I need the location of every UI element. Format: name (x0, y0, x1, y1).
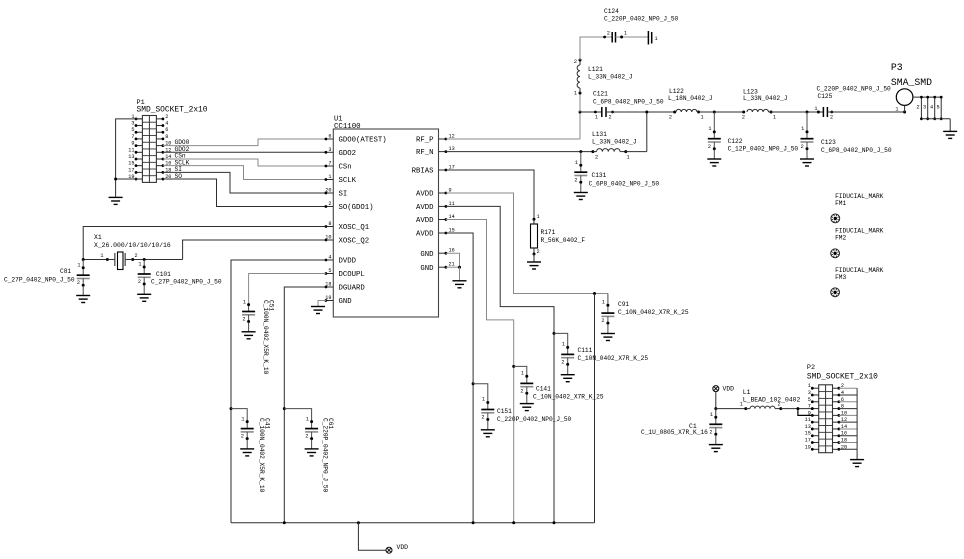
wire C151 branch (473, 384, 488, 403)
L121 labels (588, 66, 633, 81)
power VDD bottom (386, 547, 392, 553)
capacitor C51 (242, 303, 255, 323)
C121 labels (593, 91, 664, 106)
svg-text:1: 1 (708, 126, 711, 132)
svg-text:FIDUCIAL_MARK: FIDUCIAL_MARK (835, 267, 884, 274)
svg-text:L_BEAD_102_0402: L_BEAD_102_0402 (743, 397, 801, 404)
svg-text:5: 5 (131, 127, 134, 133)
svg-text:2: 2 (708, 144, 711, 150)
svg-text:P3: P3 (891, 62, 903, 73)
C131 pin numbers (574, 160, 578, 184)
wire AVDD14 (446, 220, 515, 523)
svg-text:1: 1 (100, 253, 103, 259)
svg-text:AVDD: AVDD (416, 204, 434, 212)
capacitor C91 (601, 294, 614, 325)
svg-text:9: 9 (131, 141, 134, 147)
capacitor C111 (561, 346, 574, 366)
svg-text:XOSC_Q2: XOSC_Q2 (339, 238, 370, 246)
wire RF_P (446, 138, 580, 140)
svg-text:L121: L121 (588, 66, 603, 73)
svg-text:C_10N_0402_X7R_K_25: C_10N_0402_X7R_K_25 (578, 355, 649, 362)
svg-text:L_33N_0402_J: L_33N_0402_J (592, 139, 637, 146)
fiducial FM3 (831, 288, 840, 297)
FM3 labels (835, 267, 884, 281)
svg-text:C121: C121 (593, 91, 608, 98)
capacitor stub antenna pad (648, 31, 657, 45)
svg-text:7: 7 (328, 161, 331, 167)
svg-text:2: 2 (607, 31, 610, 37)
wire C41 branch (230, 407, 248, 422)
svg-text:X_26.000/10/10/10/16: X_26.000/10/10/10/16 (94, 242, 171, 249)
wire RF node A (580, 111, 602, 113)
ground C41 (240, 440, 254, 456)
svg-text:2: 2 (328, 201, 331, 207)
ground R171 (527, 254, 541, 269)
wire AVDD bus drop (594, 294, 596, 523)
svg-text:2: 2 (574, 178, 577, 184)
svg-text:2: 2 (830, 115, 833, 121)
svg-text:VDD: VDD (723, 386, 735, 393)
svg-text:C91: C91 (618, 301, 629, 308)
svg-text:2: 2 (917, 105, 920, 111)
C124 labels (604, 8, 679, 23)
svg-text:SI: SI (339, 191, 348, 199)
C61 pin numbers (305, 417, 309, 440)
svg-text:1: 1 (710, 412, 713, 418)
X1 labels (94, 234, 171, 249)
P2 pin stubs (811, 387, 840, 451)
svg-text:L122: L122 (669, 88, 684, 95)
P2 pin numbers (805, 383, 847, 450)
L1 pin numbers (740, 402, 781, 408)
svg-text:11: 11 (805, 417, 811, 423)
svg-text:L_33N_0402_J: L_33N_0402_J (743, 95, 788, 102)
svg-text:1: 1 (574, 91, 577, 97)
inductor L122 (676, 109, 700, 113)
svg-text:GDO0(ATEST): GDO0(ATEST) (339, 137, 387, 145)
svg-text:1: 1 (328, 174, 331, 180)
svg-text:C_6P8_0402_NP0_J_50: C_6P8_0402_NP0_J_50 (821, 147, 892, 154)
svg-text:1: 1 (655, 36, 658, 42)
svg-text:L_33N_0402_J: L_33N_0402_J (588, 74, 633, 81)
FM2 labels (835, 228, 884, 242)
wire U1 GND pin (318, 301, 326, 307)
ground P1 (109, 197, 123, 204)
svg-text:15: 15 (128, 161, 134, 167)
svg-text:C_6P8_0402_NP0_J_50: C_6P8_0402_NP0_J_50 (593, 99, 664, 106)
crystal X1 (107, 252, 132, 270)
svg-text:2: 2 (595, 155, 598, 161)
wire C141 branch (514, 366, 527, 376)
wire crystal net (82, 258, 183, 261)
svg-text:7: 7 (131, 134, 134, 140)
svg-text:1: 1 (243, 300, 246, 306)
svg-text:1: 1 (701, 115, 704, 121)
svg-text:SMD_SOCKET_2x10: SMD_SOCKET_2x10 (137, 106, 208, 115)
svg-text:R_56K_0402_F: R_56K_0402_F (541, 237, 586, 244)
svg-text:2: 2 (481, 415, 484, 421)
wire VDD to L1 (716, 407, 748, 410)
capacitor C124 (603, 32, 648, 43)
wire P3 shield pins (913, 96, 950, 132)
svg-text:2: 2 (77, 280, 80, 286)
svg-text:C_27P_0402_NP0_J_50: C_27P_0402_NP0_J_50 (151, 279, 222, 286)
L122 labels (668, 88, 713, 102)
svg-text:2: 2 (561, 360, 564, 366)
svg-text:SO: SO (175, 173, 183, 180)
net label SI (175, 166, 183, 173)
svg-text:2: 2 (520, 389, 523, 395)
ground C61 (305, 440, 319, 456)
svg-text:C131: C131 (592, 172, 607, 179)
wire C61 branch (283, 407, 312, 422)
svg-text:1: 1 (521, 371, 524, 377)
svg-text:1: 1 (595, 115, 598, 121)
ground C51 (242, 323, 256, 339)
svg-text:1: 1 (537, 214, 540, 220)
C123 pin numbers (801, 126, 805, 150)
connector P1 body (142, 116, 156, 183)
wire P2 ground bus (839, 388, 857, 459)
ground C122 (707, 150, 721, 166)
C41 pin numbers (241, 417, 245, 440)
svg-text:17: 17 (805, 438, 811, 444)
wire AVDD9 (446, 193, 608, 295)
IC U1 CC1100 body (333, 129, 438, 317)
net label GDO0 (175, 139, 190, 146)
svg-text:13: 13 (805, 424, 811, 430)
svg-text:C123: C123 (821, 139, 836, 146)
wire DVDD (231, 260, 326, 523)
svg-text:17: 17 (128, 167, 134, 173)
svg-text:2: 2 (742, 115, 745, 121)
wire SI (163, 172, 326, 193)
svg-text:DVDD: DVDD (339, 258, 357, 266)
svg-text:C_12P_0402_NP0_J_50: C_12P_0402_NP0_J_50 (728, 146, 799, 153)
svg-text:1: 1 (627, 155, 630, 161)
svg-text:FIDUCIAL_MARK: FIDUCIAL_MARK (835, 193, 884, 200)
svg-text:C151: C151 (497, 408, 512, 415)
U1 title (334, 116, 361, 132)
wire XOSC_Q1 (83, 227, 326, 260)
C131 labels (589, 172, 660, 188)
inductor L1 (746, 406, 783, 410)
L122 pin numbers (669, 115, 704, 121)
svg-text:AVDD: AVDD (416, 231, 434, 239)
svg-text:C141: C141 (536, 386, 551, 393)
svg-text:6: 6 (328, 134, 331, 140)
svg-text:20: 20 (325, 188, 331, 194)
ground C141 (520, 394, 534, 410)
inductor L123 (747, 109, 773, 113)
L123 labels (743, 88, 788, 102)
svg-text:CC1100: CC1100 (334, 123, 361, 131)
svg-text:13: 13 (128, 154, 134, 160)
C125 labels (817, 85, 892, 100)
U1 right pin stubs (439, 138, 448, 269)
svg-text:2: 2 (165, 114, 168, 120)
wire GDO0 (163, 139, 326, 146)
wire SCLK (163, 166, 326, 180)
wire L123 to C125 (771, 111, 823, 114)
svg-text:19: 19 (805, 444, 811, 450)
svg-text:1: 1 (801, 126, 804, 132)
net label GDO2 (175, 146, 190, 153)
capacitor C101 (138, 260, 151, 286)
svg-text:L_18N_0402_J: L_18N_0402_J (668, 95, 713, 102)
C151 pin numbers (481, 397, 485, 421)
svg-text:R171: R171 (541, 229, 556, 236)
svg-text:3: 3 (131, 121, 134, 127)
VDD P2 label (723, 386, 735, 393)
wire CSn (163, 159, 326, 166)
svg-text:1: 1 (482, 397, 485, 403)
U1 left pin stubs (325, 138, 334, 302)
L1 labels (743, 389, 801, 404)
svg-text:2: 2 (242, 317, 245, 323)
wire RF_N (446, 150, 595, 153)
svg-text:C124: C124 (604, 8, 619, 15)
svg-text:SO(GDO1): SO(GDO1) (339, 204, 374, 212)
wire VDD tap (358, 523, 386, 550)
svg-text:5: 5 (328, 268, 331, 274)
capacitor C123 (801, 112, 814, 150)
L123 pin numbers (742, 115, 776, 121)
X1 pin numbers (100, 253, 137, 259)
ground C123 (800, 150, 814, 166)
svg-text:VDD: VDD (397, 544, 409, 551)
C122 pin numbers (708, 126, 712, 150)
ground C151 (481, 421, 495, 437)
svg-text:C101: C101 (156, 271, 171, 278)
svg-text:4: 4 (930, 105, 933, 111)
inductor L131 (593, 149, 627, 153)
ground C101 (137, 285, 151, 301)
svg-text:5: 5 (937, 105, 940, 111)
U1 left pin numbers (325, 134, 331, 302)
capacitor C61 (305, 420, 318, 440)
svg-text:8: 8 (328, 221, 331, 227)
svg-text:GND: GND (420, 265, 434, 273)
svg-text:2: 2 (609, 115, 612, 121)
C123 labels (821, 139, 892, 154)
wire L131 to node (626, 112, 647, 152)
svg-text:SCLK: SCLK (339, 177, 357, 185)
resistor R171 (531, 219, 538, 255)
svg-text:DCOUPL: DCOUPL (339, 271, 365, 279)
P1 pin numbers (128, 114, 171, 180)
svg-text:2: 2 (241, 434, 244, 440)
svg-text:X1: X1 (94, 234, 102, 241)
fiducial FM1 (831, 214, 840, 223)
wire L121 top (580, 37, 612, 60)
C124 pin numbers (607, 31, 627, 37)
U1 right pin names (412, 137, 435, 273)
svg-text:FM1: FM1 (835, 200, 846, 207)
svg-text:3: 3 (808, 390, 811, 396)
svg-text:C_1U_0805_X7R_K_16: C_1U_0805_X7R_K_16 (641, 429, 708, 436)
svg-text:RBIAS: RBIAS (412, 168, 435, 176)
svg-text:2: 2 (305, 434, 308, 440)
svg-text:1: 1 (138, 262, 141, 268)
svg-text:1: 1 (562, 342, 565, 348)
net label CSn (175, 153, 186, 160)
P1 title (137, 99, 208, 115)
svg-text:C_220P_0402_NP0_J_50: C_220P_0402_NP0_J_50 (604, 16, 679, 23)
svg-text:C125: C125 (818, 93, 833, 100)
svg-text:C81: C81 (60, 268, 71, 275)
C141 pin numbers (520, 371, 524, 395)
capacitor C151 (481, 401, 494, 421)
C91 pin numbers (601, 300, 605, 325)
P3 shield pin numbers (917, 105, 940, 111)
P3 pin1 number (895, 107, 898, 113)
svg-text:1: 1 (77, 263, 80, 269)
C91 labels (618, 301, 689, 316)
svg-text:C_27P_0402_NP0_J_50: C_27P_0402_NP0_J_50 (4, 277, 75, 284)
ground C1 (709, 435, 723, 451)
svg-text:5: 5 (808, 397, 811, 403)
C101 labels (151, 271, 222, 286)
ground U1 GND16/21 (453, 281, 467, 288)
svg-text:RF_P: RF_P (416, 137, 434, 145)
ground C91 (601, 324, 615, 340)
svg-text:DGUARD: DGUARD (339, 285, 366, 293)
svg-text:AVDD: AVDD (416, 217, 434, 225)
svg-text:1: 1 (602, 300, 605, 306)
svg-text:1: 1 (306, 417, 309, 423)
wire L1 to P2 pin7 (781, 407, 812, 410)
wire VDD rail (231, 521, 595, 524)
wire U1 GND16/21 (446, 253, 461, 281)
fiducial FM2 (831, 249, 840, 258)
svg-text:FIDUCIAL_MARK: FIDUCIAL_MARK (835, 228, 884, 235)
svg-text:1: 1 (895, 107, 898, 113)
svg-text:2: 2 (574, 59, 577, 65)
svg-text:C_10N_0402_X7R_K_25: C_10N_0402_X7R_K_25 (618, 309, 689, 316)
C1 labels (641, 423, 708, 436)
svg-text:GDO2: GDO2 (339, 150, 357, 158)
VDD bottom label (397, 544, 409, 551)
svg-text:3: 3 (923, 105, 926, 111)
ground P3 (943, 131, 957, 138)
connector P2 body (819, 385, 833, 453)
wire L1 to P2 pin9 (798, 409, 812, 416)
ground P2 (850, 460, 864, 467)
svg-text:C122: C122 (728, 138, 743, 145)
wire L122 to L123 (699, 111, 746, 114)
L131 labels (592, 131, 637, 146)
P1 pin stubs (135, 117, 165, 180)
capacitor C131 (574, 152, 587, 184)
C101 pin numbers (138, 262, 142, 286)
capacitor C125 (823, 107, 833, 117)
svg-text:10: 10 (325, 235, 331, 241)
svg-text:C_220P_0402_NP0_J_50: C_220P_0402_NP0_J_50 (322, 418, 329, 493)
wire XOSC_Q2 (183, 240, 326, 260)
svg-text:19: 19 (325, 295, 331, 301)
svg-text:6: 6 (165, 127, 168, 133)
svg-text:7: 7 (808, 404, 811, 410)
svg-text:1: 1 (773, 115, 776, 121)
svg-text:2: 2 (601, 318, 604, 324)
svg-text:8: 8 (165, 134, 168, 140)
svg-text:2: 2 (801, 144, 804, 150)
L121 pin numbers (574, 59, 577, 97)
svg-text:CSn: CSn (339, 164, 352, 172)
wire SO (163, 179, 326, 206)
wire GDO2 (163, 151, 326, 153)
svg-text:2: 2 (537, 249, 540, 255)
capacitor C121 (594, 107, 614, 117)
svg-text:RF_N: RF_N (416, 149, 434, 157)
inductor L121 (577, 59, 581, 95)
net label SCLK (175, 159, 190, 166)
wire C125 to P3 (827, 111, 906, 114)
U1 left pin names (339, 137, 387, 307)
svg-text:1: 1 (814, 106, 817, 112)
wire DGUARD (284, 287, 326, 523)
wire P1 ground bus (114, 119, 142, 198)
svg-text:C_220P_0402_NP0_J_50: C_220P_0402_NP0_J_50 (817, 85, 892, 92)
svg-text:FM2: FM2 (835, 235, 846, 242)
svg-text:9: 9 (808, 410, 811, 416)
svg-text:SMD_SOCKET_2x10: SMD_SOCKET_2x10 (807, 373, 878, 382)
C125 pin numbers (814, 106, 833, 121)
svg-text:C_10N_0402_X7R_K_25: C_10N_0402_X7R_K_25 (533, 394, 604, 401)
wire C111 branch (554, 333, 568, 347)
svg-text:L131: L131 (592, 131, 607, 138)
power VDD P2 (713, 386, 719, 411)
svg-text:4: 4 (328, 255, 331, 261)
svg-text:C_220P_0402_NP0_J_50: C_220P_0402_NP0_J_50 (497, 416, 572, 423)
FM1 labels (835, 193, 884, 207)
wire RF_P riser (579, 93, 582, 139)
svg-text:FM3: FM3 (835, 274, 846, 281)
C1 pin numbers (709, 412, 713, 436)
P3 title (891, 62, 932, 88)
svg-text:1: 1 (241, 417, 244, 423)
svg-text:L1: L1 (743, 389, 751, 396)
C61 labels (322, 418, 335, 493)
svg-text:1: 1 (575, 160, 578, 166)
R171 labels (541, 229, 586, 244)
svg-text:1: 1 (624, 31, 627, 37)
svg-text:GND: GND (339, 298, 353, 306)
svg-text:2: 2 (135, 253, 138, 259)
ground C131 (574, 183, 588, 199)
wire DCOUPL (249, 274, 326, 306)
svg-text:1: 1 (808, 383, 811, 389)
C122 labels (728, 138, 799, 153)
wire C121 to L122 (606, 111, 676, 114)
svg-text:SMA_SMD: SMA_SMD (891, 77, 932, 88)
capacitor C41 (241, 420, 254, 440)
R171 pin numbers (537, 214, 540, 255)
svg-text:4: 4 (165, 121, 168, 127)
net label SO (175, 173, 183, 180)
svg-text:2: 2 (138, 279, 141, 285)
C111 labels (578, 347, 649, 362)
svg-text:GND: GND (420, 251, 434, 259)
svg-text:C_6P8_0402_NP0_J_50: C_6P8_0402_NP0_J_50 (589, 181, 660, 188)
svg-text:P2: P2 (807, 364, 815, 372)
C141 labels (533, 386, 604, 401)
svg-text:AVDD: AVDD (416, 191, 434, 199)
svg-text:18: 18 (325, 282, 331, 288)
C151 labels (497, 408, 572, 423)
C111 pin numbers (561, 342, 565, 366)
